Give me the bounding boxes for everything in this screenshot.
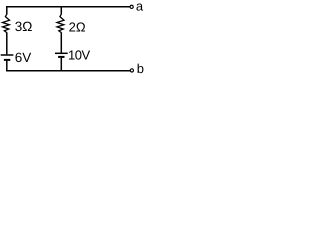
- wire: left branch bottom lead: [6, 61, 8, 72]
- svg-text:b: b: [137, 61, 144, 76]
- terminal b (open circle): [130, 69, 133, 72]
- wire: middle branch bottom lead: [60, 58, 62, 72]
- battery 10V long plate (+): [55, 52, 68, 54]
- battery 6V short plate (-): [4, 59, 10, 61]
- svg-text:a: a: [136, 0, 144, 14]
- wire: middle branch top lead: [60, 6, 62, 14]
- wire: left branch between resistor and battery: [6, 32, 8, 54]
- resistor 3Ω (left branch zigzag): [3, 14, 10, 32]
- wire: left branch top lead: [6, 6, 8, 14]
- svg-text:3Ω: 3Ω: [15, 19, 33, 34]
- svg-text:2Ω: 2Ω: [69, 20, 86, 35]
- resistor 2Ω (middle branch zigzag): [57, 14, 64, 32]
- wire: bottom bus from left branch to terminal b: [6, 70, 130, 72]
- svg-text:10V: 10V: [68, 47, 90, 62]
- wire: top bus from left branch to terminal a: [6, 6, 130, 8]
- battery 6V long plate (+): [1, 54, 14, 56]
- terminal a (open circle): [130, 5, 133, 8]
- svg-text:6V: 6V: [15, 50, 32, 65]
- battery 10V short plate (-): [58, 56, 64, 58]
- wire: middle branch between resistor and battery: [60, 32, 62, 52]
